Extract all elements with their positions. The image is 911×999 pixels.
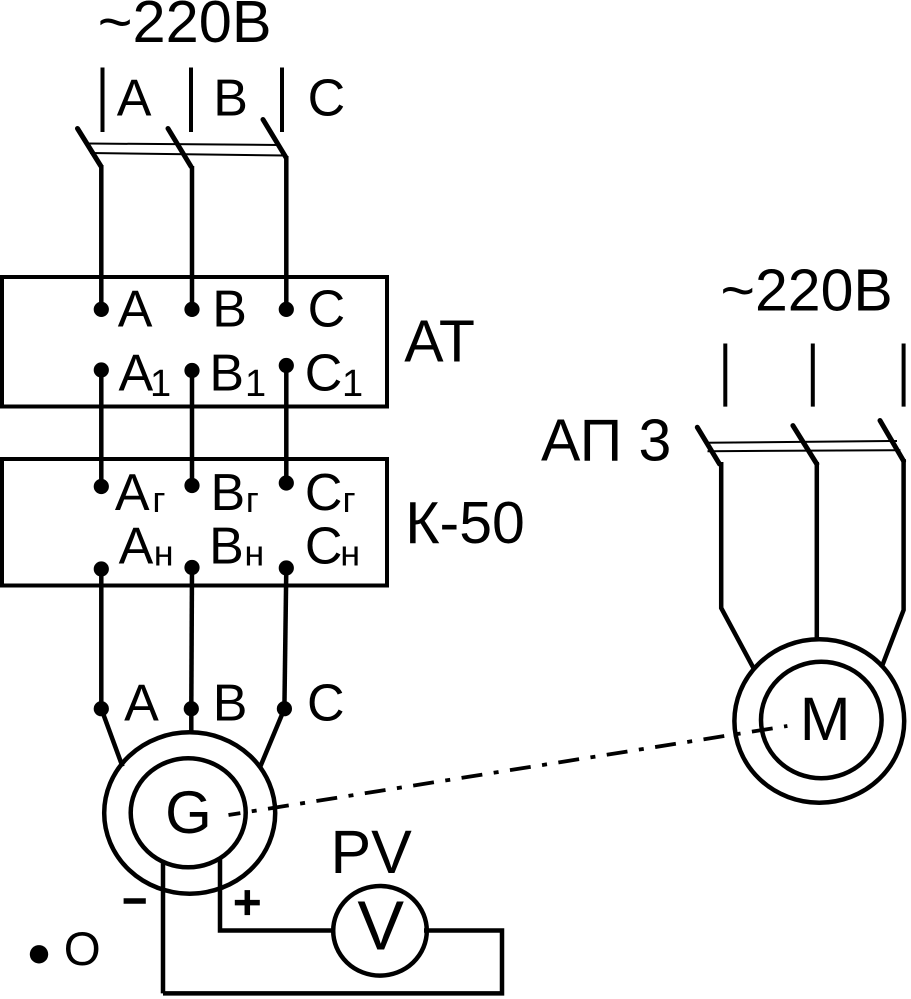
label node C — [307, 675, 345, 733]
label A1 — [119, 344, 172, 405]
label O — [64, 923, 101, 976]
svg-text:G: G — [165, 779, 212, 846]
svg-text:1: 1 — [150, 363, 171, 405]
wire motor phase 2 — [815, 462, 820, 641]
switch AP3 blade 3 — [880, 421, 904, 462]
label node A — [124, 675, 159, 733]
terminal Cn of K-50 — [279, 560, 294, 575]
svg-text:В: В — [211, 464, 246, 522]
svg-text:В: В — [209, 518, 244, 576]
wire node C to generator — [260, 709, 285, 769]
label M — [800, 685, 851, 753]
wire voltmeter to return loop — [163, 931, 502, 994]
wire phase A switch to AT — [99, 165, 104, 309]
terminal C of AT — [279, 302, 294, 317]
terminal tick motor phase 3 — [902, 344, 906, 407]
shaft coupling dash-dot line — [229, 726, 788, 815]
terminal tick motor phase 2 — [811, 344, 815, 407]
label B terminal AT — [212, 280, 247, 338]
terminal C1 of AT — [279, 358, 294, 373]
svg-text:PV: PV — [331, 818, 413, 886]
switch AP3 blade 2 — [793, 426, 817, 464]
terminal B1 of AT — [184, 363, 199, 378]
svg-text:V: V — [357, 887, 404, 965]
minus brush wire of G — [161, 861, 166, 993]
svg-text:B: B — [212, 280, 247, 338]
label B1 — [209, 344, 266, 405]
svg-text:~220В: ~220В — [98, 0, 272, 55]
label plus — [235, 890, 260, 915]
wire Cn to node C — [284, 568, 286, 709]
label minus — [124, 898, 146, 904]
switch blade phase C — [263, 120, 286, 158]
svg-text:г: г — [246, 479, 259, 520]
wire node A to generator — [101, 709, 122, 767]
label C1 — [305, 344, 363, 405]
node C — [277, 701, 292, 716]
wire An to node A — [99, 569, 104, 709]
wire A1 to Ag — [99, 370, 104, 487]
svg-text:B: B — [213, 675, 248, 733]
terminal B of AT — [184, 302, 199, 317]
svg-text:н: н — [154, 533, 174, 574]
node O dot — [30, 945, 48, 963]
svg-text:C: C — [308, 280, 346, 338]
label ~220V supply right — [721, 258, 893, 324]
wire phase B switch to AT — [190, 166, 195, 309]
label phase A — [117, 69, 152, 127]
terminal Bg of K-50 — [184, 478, 199, 493]
svg-text:А: А — [119, 518, 154, 576]
svg-text:A: A — [117, 69, 152, 127]
label phase B — [213, 69, 248, 127]
svg-text:C: C — [307, 675, 345, 733]
generator G outer circle — [104, 732, 275, 893]
motor M inner circle — [761, 662, 882, 778]
svg-text:1: 1 — [342, 363, 363, 405]
label C terminal AT — [308, 280, 346, 338]
label AT — [404, 309, 475, 375]
svg-text:н: н — [244, 533, 264, 574]
voltmeter PV circle — [333, 886, 427, 976]
label Cg — [305, 464, 356, 522]
svg-text:A: A — [119, 344, 154, 402]
terminal Bn of K-50 — [184, 560, 199, 575]
terminal tick phase B — [189, 68, 193, 133]
label Cn — [305, 518, 360, 576]
label A terminal AT — [118, 280, 153, 338]
box autotransformer AT — [2, 277, 387, 407]
svg-text:О: О — [64, 923, 101, 976]
label phase C — [308, 69, 346, 127]
switch blade phase A — [78, 129, 101, 167]
svg-text:A: A — [124, 675, 159, 733]
label G — [165, 779, 212, 846]
switch linkage bar left — [88, 144, 284, 156]
switch blade phase B — [168, 129, 191, 167]
terminal A of AT — [94, 302, 109, 317]
wire node B to generator — [189, 709, 194, 734]
label An — [119, 518, 174, 576]
svg-text:АТ: АТ — [404, 309, 475, 375]
box K-50 — [2, 459, 387, 586]
label node B — [213, 675, 248, 733]
node A — [94, 701, 109, 716]
svg-text:А: А — [115, 464, 150, 522]
label V — [357, 887, 404, 965]
wire B1 to Bg — [190, 371, 195, 486]
svg-text:C: C — [305, 344, 343, 402]
label Bn — [209, 518, 264, 576]
svg-text:A: A — [118, 280, 153, 338]
svg-text:C: C — [308, 69, 346, 127]
svg-text:М: М — [800, 685, 851, 753]
terminal Cg of K-50 — [279, 475, 294, 490]
wire C1 to Cg — [284, 366, 289, 484]
svg-text:~220В: ~220В — [721, 258, 893, 324]
terminal A1 of AT — [94, 362, 109, 377]
switch AP3 blade 1 — [697, 427, 719, 464]
label Ag — [115, 464, 166, 522]
label AP 3 — [541, 407, 671, 473]
svg-text:1: 1 — [245, 363, 266, 405]
label Bg — [211, 464, 259, 522]
terminal tick phase A — [101, 68, 105, 133]
motor M outer circle — [734, 639, 904, 802]
terminal tick phase C — [280, 68, 284, 133]
label K-50 — [405, 490, 525, 556]
label ~220V supply left — [98, 0, 272, 55]
wire motor phase 1 — [721, 462, 754, 669]
terminal Ag of K-50 — [94, 479, 109, 494]
label PV — [331, 818, 413, 886]
terminal An of K-50 — [94, 561, 109, 576]
svg-text:С: С — [305, 464, 343, 522]
svg-text:г: г — [343, 479, 356, 520]
svg-text:К-50: К-50 — [405, 490, 525, 556]
svg-text:С: С — [305, 518, 343, 576]
terminal tick motor phase 1 — [723, 344, 727, 407]
svg-text:АП 3: АП 3 — [541, 407, 671, 473]
svg-text:B: B — [213, 69, 248, 127]
node B — [184, 701, 199, 716]
svg-text:н: н — [340, 533, 360, 574]
wire phase C switch to AT — [284, 156, 289, 309]
generator G inner circle — [131, 758, 246, 867]
wire Bn to node B — [189, 568, 194, 709]
plus brush wire of G — [220, 859, 335, 931]
svg-text:г: г — [152, 479, 165, 520]
wire motor phase 3 — [882, 459, 904, 668]
svg-text:B: B — [209, 344, 244, 402]
switch linkage bar right — [706, 441, 901, 451]
